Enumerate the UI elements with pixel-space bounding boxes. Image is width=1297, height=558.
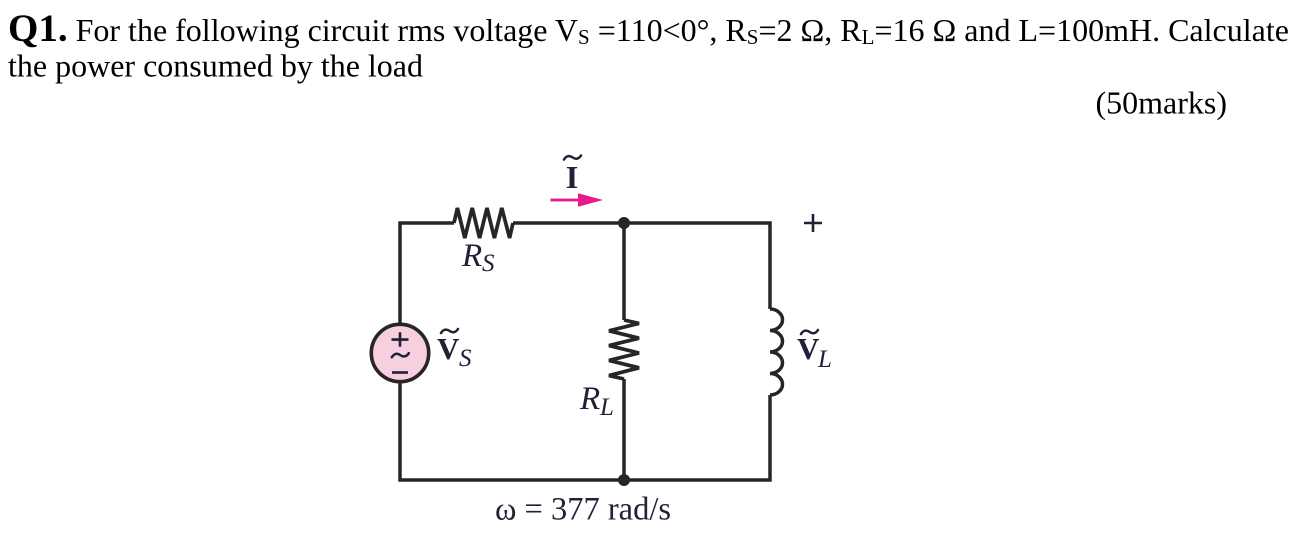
svg-text:L: L	[817, 346, 832, 373]
svg-text:S: S	[459, 345, 472, 372]
svg-text:V: V	[437, 331, 460, 366]
svg-text:R: R	[579, 381, 600, 417]
svg-text:Q1. For the following circuit: Q1. For the following circuit rms voltag…	[8, 7, 1289, 50]
svg-text:ω = 377 rad/s: ω = 377 rad/s	[495, 492, 671, 528]
svg-text:V: V	[797, 331, 820, 366]
svg-text:I: I	[566, 159, 578, 195]
svg-text:S: S	[482, 250, 495, 277]
svg-text:(50marks): (50marks)	[1095, 85, 1227, 121]
svg-text:R: R	[461, 238, 482, 274]
svg-text:the power consumed by the load: the power consumed by the load	[8, 48, 423, 84]
svg-text:L: L	[599, 394, 614, 421]
